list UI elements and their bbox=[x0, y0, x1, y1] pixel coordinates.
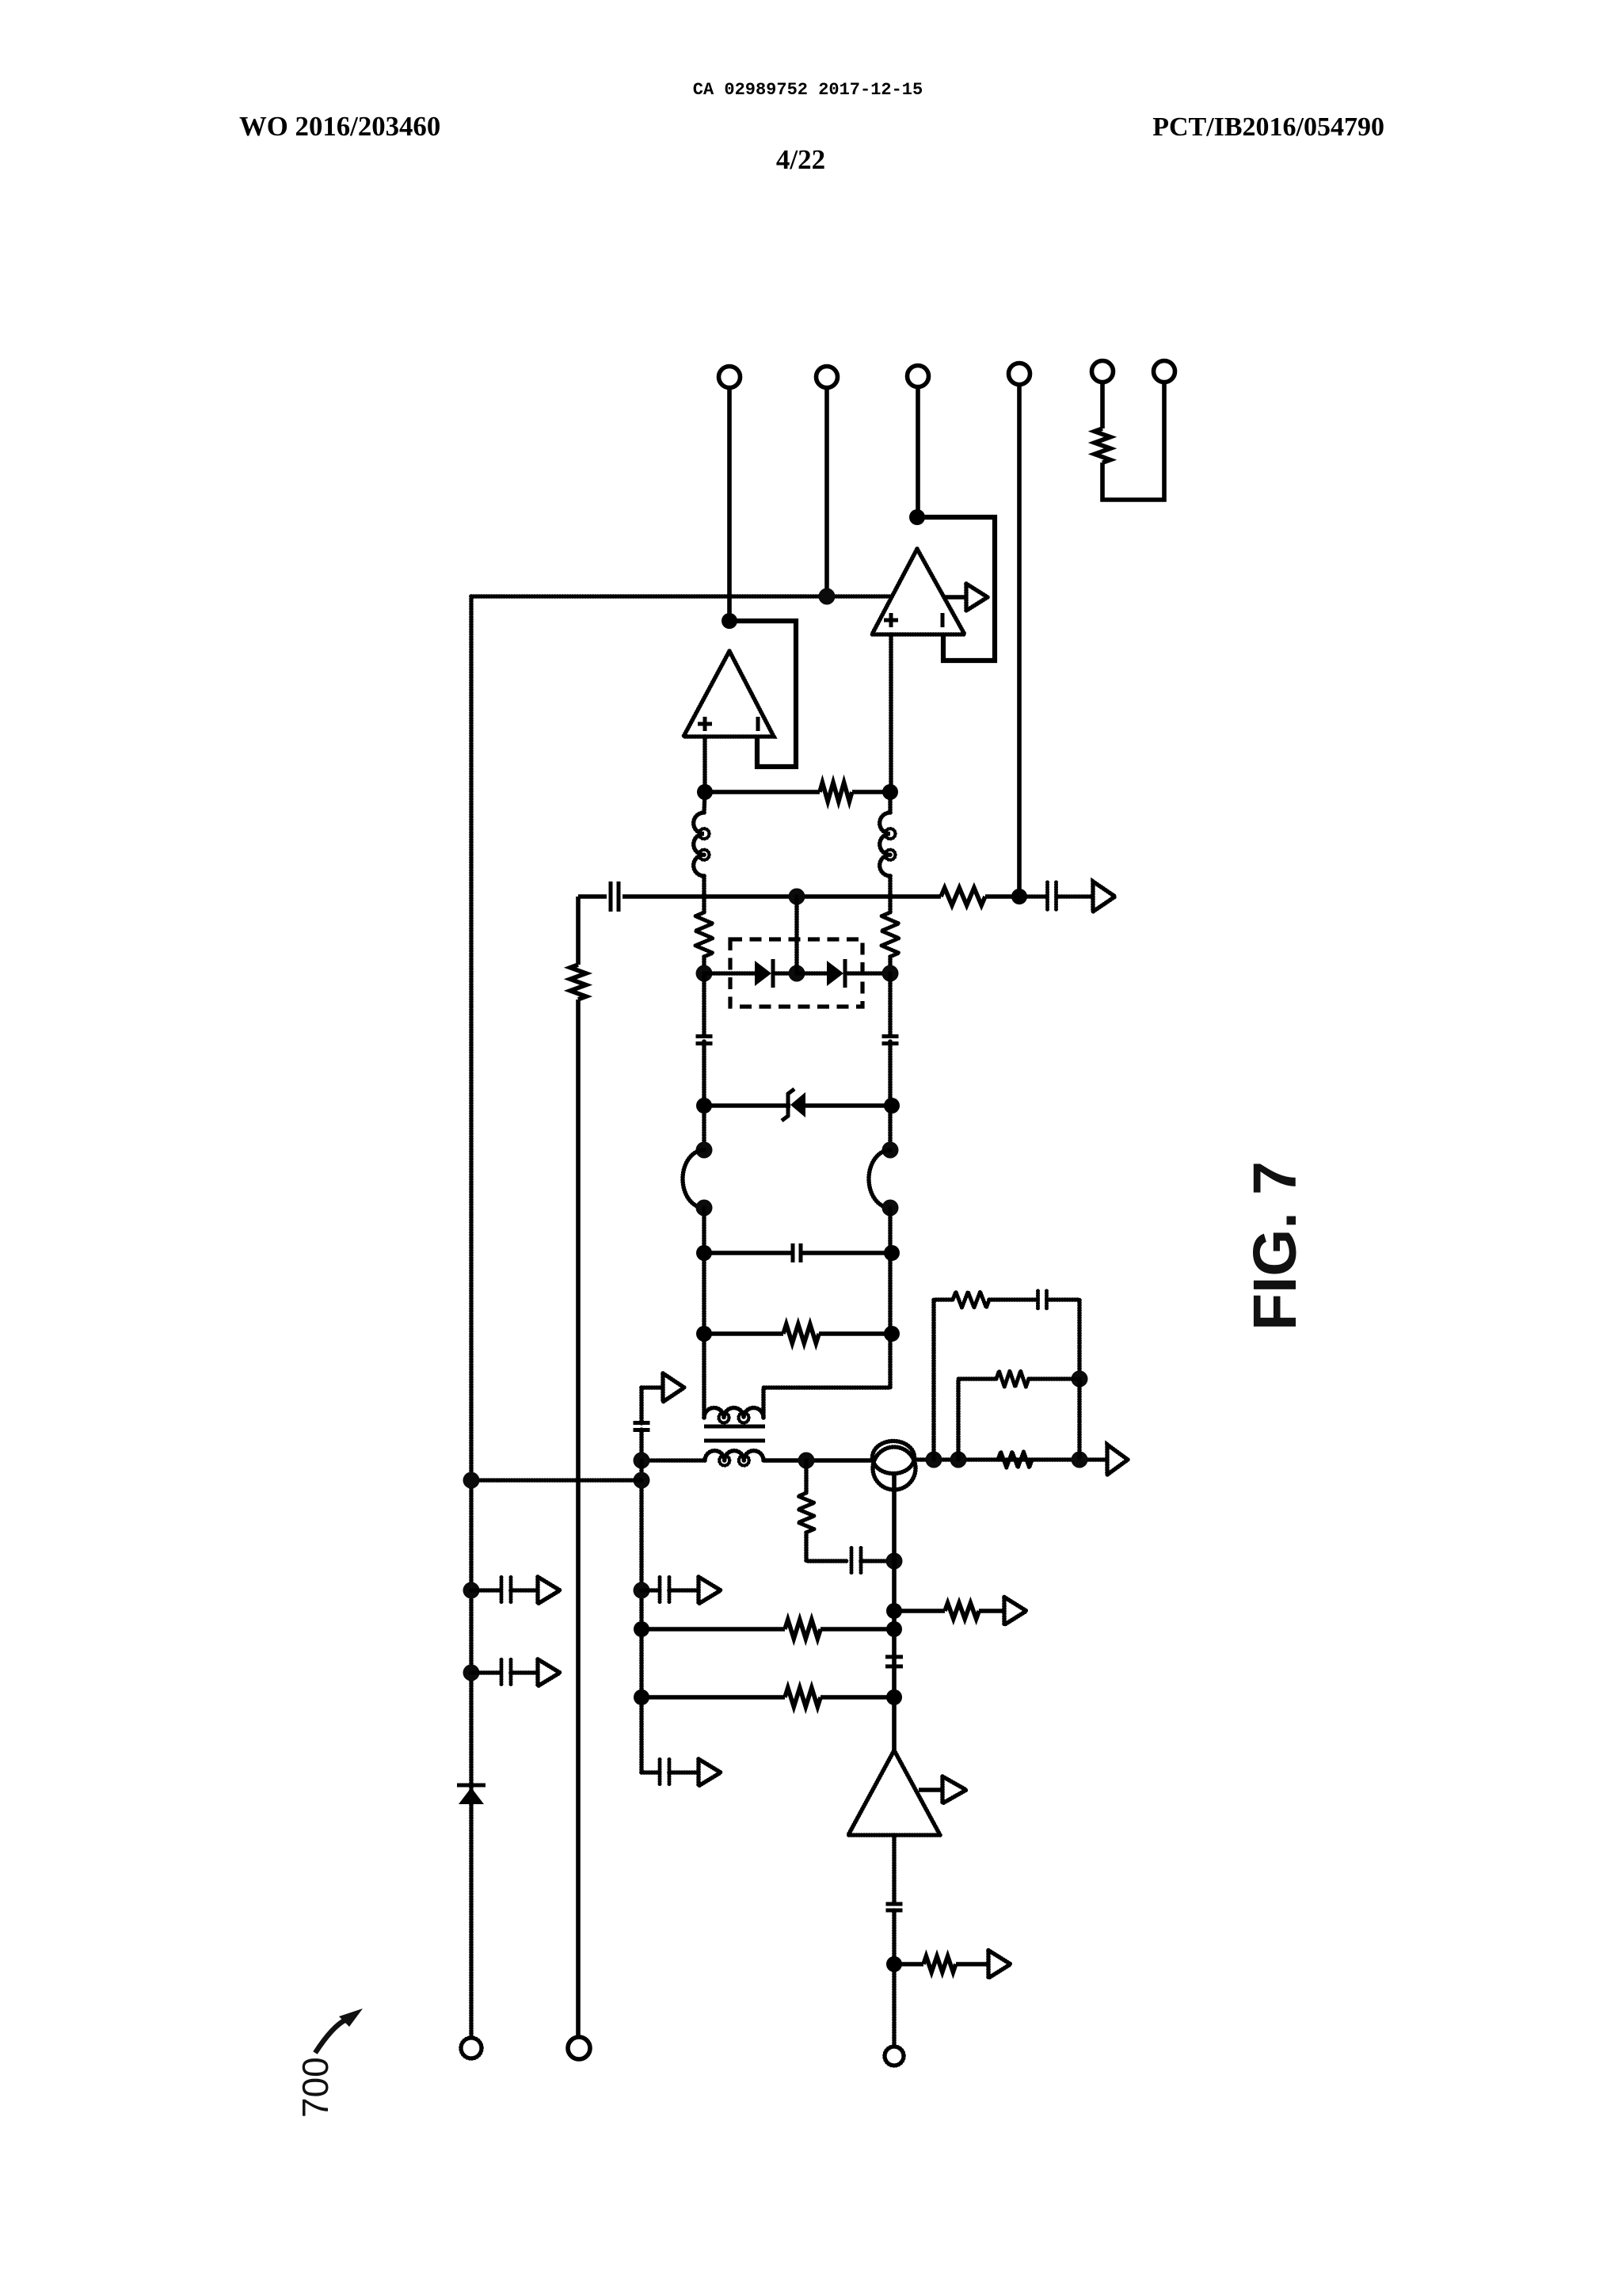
capacitor C2 bbox=[1048, 882, 1057, 911]
capacitor C10 bbox=[501, 1660, 511, 1686]
resistor R1 bbox=[820, 782, 852, 802]
node D1n bbox=[696, 1098, 712, 1114]
resistor R4 bbox=[695, 912, 713, 957]
resistor R2 bbox=[941, 888, 985, 905]
node H1 bbox=[634, 1453, 650, 1469]
terminal T6 bbox=[1154, 361, 1175, 383]
wire U2 noninverting input bbox=[889, 634, 893, 792]
wire row1 right bbox=[852, 790, 890, 794]
figure label FIG. 7 bbox=[1241, 1161, 1309, 1331]
resistor R7 bbox=[998, 1452, 1032, 1468]
wire M2 stub bbox=[894, 1609, 945, 1613]
transformer core bars bbox=[704, 1426, 765, 1441]
wire T3 lead bbox=[916, 387, 920, 518]
wire N1 stub bbox=[894, 1962, 923, 1967]
transformer primary winding bbox=[704, 1408, 763, 1423]
node H5 bbox=[634, 1689, 649, 1705]
wire row2 arrow stub bbox=[1057, 894, 1093, 899]
U1 plus input label bbox=[698, 717, 712, 731]
probe arrow N1 bbox=[988, 1951, 1011, 1978]
wire J2 stub bbox=[471, 1670, 501, 1675]
wire L2 top stub bbox=[888, 792, 893, 813]
resistor R8 bbox=[953, 1292, 989, 1308]
wire osc right bbox=[916, 1457, 1107, 1462]
header WO number bbox=[239, 111, 440, 142]
node N1 bbox=[886, 1956, 902, 1972]
wire R4 bottom bbox=[702, 957, 706, 973]
wire xfmr secondary right bbox=[763, 1458, 806, 1463]
wire diode mid vertical bbox=[794, 897, 799, 973]
resistor R5 bbox=[881, 912, 899, 957]
wire osc down bbox=[892, 1472, 897, 1561]
label 700 leader arrow bbox=[315, 2009, 363, 2053]
node M2 bbox=[886, 1603, 902, 1619]
wire xfmr secondary left bbox=[642, 1458, 705, 1463]
node A2 bbox=[882, 784, 898, 800]
wire T1 lead bbox=[727, 388, 732, 622]
wire rail C seg2 bbox=[639, 1460, 644, 1772]
wire rail R seg2 bbox=[888, 973, 893, 1035]
node E1 bbox=[696, 1142, 713, 1159]
terminal bottom 3 bbox=[885, 2047, 904, 2066]
wire U3 input lower bbox=[892, 1910, 897, 1964]
probe arrow C7 bbox=[699, 1577, 721, 1604]
capacitor C13 bbox=[885, 1657, 903, 1666]
node U1 output dot bbox=[722, 613, 737, 629]
node K3 bbox=[950, 1452, 967, 1468]
probe arrow U2 output bbox=[966, 584, 988, 611]
capacitor C14 bbox=[886, 1904, 903, 1910]
wire xfmr primary right bbox=[763, 1334, 890, 1418]
dashed box around diode pair bbox=[730, 939, 862, 1007]
wire rail C top bbox=[639, 1388, 644, 1423]
capacitor C1 bbox=[611, 881, 619, 912]
wire R5 bottom bbox=[888, 957, 893, 973]
node D2n bbox=[884, 1098, 900, 1114]
wire rail C bottom stub bbox=[669, 1770, 699, 1775]
capacitor C12 bbox=[851, 1548, 861, 1574]
wire rail R seg5 bbox=[888, 1253, 893, 1334]
wire RC loop right side bbox=[1047, 1300, 1079, 1379]
node E3 bbox=[882, 1142, 899, 1159]
node J1 bbox=[463, 1582, 480, 1599]
wire C12 right bbox=[861, 1559, 894, 1563]
wire R10 bottom bbox=[806, 1533, 847, 1561]
wire diode row left bbox=[704, 971, 756, 976]
resistor R12 bbox=[785, 1620, 821, 1639]
wire M1 down bbox=[892, 1561, 897, 1697]
node F1 bbox=[696, 1245, 712, 1261]
wire rail L seg5 bbox=[702, 1253, 706, 1334]
resistor on T5 leg bbox=[1095, 428, 1110, 463]
resistor R9 bbox=[996, 1371, 1029, 1387]
wire rail B lower bbox=[576, 1000, 581, 2037]
node B2 bbox=[1011, 889, 1027, 904]
wire cross link bbox=[471, 1478, 642, 1483]
wire H3 stub bbox=[642, 1588, 660, 1593]
node H4 bbox=[634, 1621, 649, 1637]
wire row H5 right bbox=[821, 1695, 894, 1700]
wire diode row mid1 bbox=[774, 971, 797, 976]
wire T4 lead bbox=[1017, 385, 1022, 897]
wire U3 input upper bbox=[892, 1835, 897, 1904]
U2 minus input label bbox=[941, 613, 945, 627]
page number 4/22 bbox=[776, 144, 825, 175]
signal source circle bbox=[873, 1441, 916, 1491]
node C1n bbox=[696, 965, 713, 982]
svg-text:CA 02989752 2017-12-15: CA 02989752 2017-12-15 bbox=[693, 80, 923, 100]
wire L1 bottom bbox=[702, 876, 706, 912]
wire U2 output stub bbox=[944, 595, 966, 600]
node B1 bbox=[789, 889, 805, 905]
wire row H4 right bbox=[821, 1627, 894, 1632]
diode D1 bbox=[755, 959, 773, 988]
arc element left bbox=[683, 1150, 704, 1208]
wire R14 right bbox=[956, 1962, 988, 1967]
resistor R11 bbox=[945, 1603, 979, 1619]
inductor L1 bbox=[694, 813, 710, 876]
header document number text bbox=[693, 80, 923, 100]
node K1 bbox=[798, 1453, 815, 1469]
node M4 bbox=[886, 1689, 902, 1705]
wire rail C bottom bend bbox=[642, 1770, 660, 1775]
op-amp U1 bbox=[683, 651, 774, 737]
wire xfmr left down bbox=[702, 1334, 706, 1418]
terminal T2 bbox=[817, 367, 838, 388]
node K4 bbox=[1072, 1452, 1088, 1468]
wire resrow left bbox=[704, 1331, 783, 1336]
wire H3 stub2 bbox=[669, 1588, 699, 1593]
wire R9 right bbox=[1029, 1376, 1079, 1381]
node bus-T2 junction bbox=[819, 588, 836, 605]
wire rail L seg3 bbox=[702, 1041, 706, 1150]
label 700 bbox=[295, 2057, 336, 2118]
resistor R10 bbox=[798, 1493, 814, 1533]
wire left rail A bbox=[469, 596, 474, 2038]
capacitor C5 bbox=[793, 1243, 801, 1262]
op-amp U2 bbox=[872, 549, 965, 634]
wire U1 noninverting input bbox=[702, 737, 707, 792]
node J2 bbox=[463, 1665, 480, 1681]
node H0 bbox=[463, 1472, 480, 1489]
probe arrow U3 out bbox=[942, 1776, 966, 1803]
svg-text:WO 2016/203460: WO 2016/203460 bbox=[239, 111, 440, 142]
node G1 bbox=[696, 1326, 712, 1342]
wire J2 stub2 bbox=[511, 1670, 538, 1675]
node M3 bbox=[886, 1621, 902, 1637]
probe arrow osc out bbox=[1107, 1445, 1128, 1475]
wire rail L seg4 bbox=[702, 1208, 706, 1253]
wire J1 stub2 bbox=[511, 1588, 538, 1593]
wire RC loop top mid bbox=[989, 1297, 1038, 1302]
wire rail B upper bbox=[576, 897, 581, 965]
node E2 bbox=[696, 1200, 713, 1217]
transformer secondary winding bbox=[705, 1451, 763, 1466]
wire diode row right bbox=[846, 971, 890, 976]
wire T5 lead bbox=[1100, 383, 1105, 429]
wire U1 feedback loop bbox=[729, 621, 796, 767]
wire zener left bbox=[704, 1103, 790, 1108]
wire J1 stub bbox=[471, 1588, 501, 1593]
wire parallel R branch bbox=[958, 1379, 996, 1460]
terminal T4 bbox=[1009, 364, 1030, 385]
probe arrow M2 bbox=[1004, 1597, 1026, 1625]
header PCT number bbox=[1152, 112, 1384, 142]
wire R10 top bbox=[804, 1460, 809, 1493]
wire rail L seg2 bbox=[702, 973, 706, 1035]
probe arrow C9 bbox=[538, 1577, 560, 1604]
terminal T5 bbox=[1092, 361, 1114, 383]
wire R11 right bbox=[979, 1609, 1004, 1613]
node U2 output dot bbox=[909, 509, 925, 525]
capacitor C6 bbox=[634, 1423, 650, 1430]
wire RC loop left side bbox=[934, 1300, 953, 1460]
svg-text:700: 700 bbox=[295, 2057, 336, 2118]
U1 minus input label bbox=[756, 717, 760, 731]
svg-text:4/22: 4/22 bbox=[776, 144, 825, 175]
wire row H5 bbox=[642, 1695, 785, 1700]
wire T2 lead bbox=[824, 388, 829, 597]
U2 plus input label bbox=[884, 613, 898, 627]
terminal bottom 2 bbox=[568, 2037, 590, 2059]
resistor R3 bbox=[570, 965, 586, 1000]
wire caprow right bbox=[801, 1251, 892, 1255]
probe arrow rail C top bbox=[642, 1373, 684, 1402]
resistor R13 bbox=[785, 1688, 821, 1707]
wire osc left bbox=[806, 1458, 873, 1463]
wire row2 mid bbox=[623, 894, 941, 899]
probe arrow row2 bbox=[1093, 881, 1115, 912]
capacitor C11 bbox=[1038, 1291, 1047, 1308]
wire L2 bottom bbox=[888, 876, 893, 912]
wire U3 output stub bbox=[919, 1788, 942, 1792]
wire rail R seg3 bbox=[888, 1041, 893, 1150]
wire caprow left bbox=[704, 1251, 793, 1255]
terminal T3 bbox=[908, 366, 929, 387]
terminal T1 bbox=[719, 367, 741, 388]
probe arrow C10 bbox=[538, 1659, 560, 1686]
wire row1 left bbox=[705, 790, 820, 794]
capacitor C4 bbox=[882, 1037, 899, 1044]
node C3n bbox=[882, 965, 899, 982]
node A1 bbox=[697, 784, 713, 800]
node E4 bbox=[882, 1200, 899, 1217]
op-amp U3 bbox=[848, 1750, 940, 1835]
inductor L2 bbox=[880, 813, 896, 876]
terminal bottom 1 bbox=[461, 2038, 482, 2058]
wire dotted bus horizontal bbox=[471, 594, 892, 599]
node C2n bbox=[789, 965, 805, 982]
resistor R6 bbox=[783, 1324, 819, 1343]
wire diode row mid2 bbox=[797, 971, 828, 976]
arc element right bbox=[869, 1150, 890, 1208]
capacitor C9 bbox=[501, 1578, 511, 1604]
wire L1 top stub bbox=[704, 792, 705, 813]
wire K5 down bbox=[1077, 1379, 1082, 1460]
svg-text:FIG. 7: FIG. 7 bbox=[1241, 1161, 1309, 1331]
node K5 bbox=[1072, 1371, 1088, 1388]
wire row2 right bbox=[985, 894, 1019, 899]
svg-text:PCT/IB2016/054790: PCT/IB2016/054790 bbox=[1152, 112, 1384, 142]
wire row H4 bbox=[642, 1627, 785, 1632]
wire U2 feedback loop bbox=[917, 517, 995, 661]
resistor R14 bbox=[923, 1956, 956, 1972]
node H3 bbox=[634, 1582, 650, 1599]
node M1 bbox=[886, 1553, 903, 1570]
wire resrow right bbox=[819, 1331, 892, 1336]
node K2 bbox=[926, 1452, 942, 1468]
wire row2 left segment bbox=[578, 894, 607, 899]
capacitor C3 bbox=[696, 1037, 713, 1044]
wire U3 top bbox=[892, 1697, 897, 1750]
wire row2 cap stub bbox=[1019, 894, 1047, 899]
wire rail R seg4 bbox=[888, 1208, 893, 1253]
diode D3 on rail A bbox=[457, 1785, 485, 1804]
diode D2 bbox=[827, 959, 845, 988]
node F2 bbox=[884, 1245, 900, 1261]
node H2 bbox=[634, 1472, 650, 1489]
capacitor C7 bbox=[660, 1578, 669, 1604]
wire N1 down bbox=[892, 1964, 897, 2047]
wire zener right bbox=[805, 1103, 892, 1108]
node G2 bbox=[884, 1326, 900, 1342]
zener diode DZ bbox=[782, 1089, 805, 1121]
probe arrow C8 bbox=[699, 1759, 721, 1786]
wire T5-T6 bottom loop bbox=[1102, 383, 1164, 501]
wire rail C seg1 bbox=[639, 1430, 644, 1460]
capacitor C8 bbox=[660, 1760, 669, 1786]
